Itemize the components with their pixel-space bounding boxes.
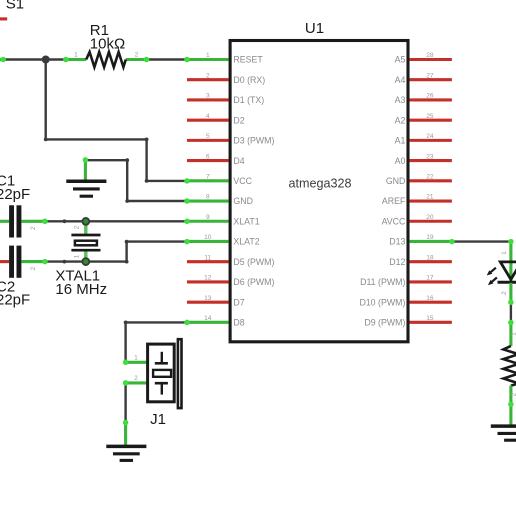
U1 pin 22 leg (GND) <box>409 179 452 182</box>
svg-text:A4: A4 <box>395 75 406 85</box>
svg-text:S1: S1 <box>6 0 24 13</box>
resistor R2 leg 2 <box>509 386 512 405</box>
svg-text:12: 12 <box>204 275 212 282</box>
C2 pin 2 number <box>30 266 37 270</box>
resonator J1 body <box>148 339 182 408</box>
svg-text:U1: U1 <box>305 20 324 37</box>
U1 pin 28 leg (A5) <box>409 58 452 61</box>
U1 pin 9 leg (XLAT1) <box>187 220 229 223</box>
U1 pin 21 name label AREF <box>382 196 406 206</box>
node: crystal bottom junction <box>82 258 89 265</box>
U1 pin 23 number <box>426 153 434 160</box>
U1 pin 12 leg (D6 (PWM)) <box>187 280 229 283</box>
U1 pin 10 leg (XLAT2) <box>187 240 229 243</box>
capacitor C2 right lead <box>21 260 45 263</box>
LED1 pin 1 number <box>501 251 508 255</box>
U1 pin 25 name label A2 <box>395 115 406 125</box>
svg-text:2: 2 <box>510 392 516 396</box>
J1 label <box>150 411 166 428</box>
LED1 pin 2 number <box>501 291 508 295</box>
U1 pin 5 number <box>206 133 210 140</box>
svg-text:8: 8 <box>206 194 210 201</box>
U1 pin 1 name label RESET <box>233 55 263 65</box>
U1 pin 9 name label XLAT1 <box>233 216 259 226</box>
U1 pin 11 name label D5 (PWM) <box>233 257 274 267</box>
svg-text:atmega328: atmega328 <box>288 176 351 190</box>
wire: J1 pin 2 to ground <box>124 383 126 423</box>
ground symbol near U1 <box>66 181 106 196</box>
capacitor C1 left lead <box>0 220 9 223</box>
wire: left edge to R1 (VCC/S1 net) <box>0 58 66 60</box>
node: U1 pin10 endpoint <box>184 239 190 245</box>
U1 pin 18 name label D12 <box>389 257 405 267</box>
U1 pin 27 number <box>426 72 434 79</box>
svg-text:6: 6 <box>206 153 210 160</box>
crystal XTAL1 pin 1 (bottom) <box>84 250 87 261</box>
C2 label <box>0 278 15 295</box>
svg-text:A1: A1 <box>395 136 406 146</box>
wire: LED to R2 <box>510 302 512 322</box>
svg-text:3: 3 <box>206 93 210 100</box>
node: R2 pin1 endpoint <box>508 320 514 326</box>
J1 pin 2 leg <box>126 381 147 384</box>
svg-text:2: 2 <box>30 226 37 230</box>
wire: VCC net (junction down to pin 7) <box>44 60 187 183</box>
ground bottom-right pin stub <box>509 404 512 426</box>
svg-text:D13: D13 <box>389 237 405 247</box>
node: R2 pin2 endpoint <box>508 402 514 408</box>
R2 pin 2 number <box>510 392 516 396</box>
U1 pin 15 number <box>426 315 434 322</box>
resistor R1 leg 1 <box>66 58 86 61</box>
U1 pin 17 number <box>426 275 434 282</box>
IC U1 atmega328 <box>230 41 408 342</box>
U1 pin 24 leg (A1) <box>409 139 452 142</box>
U1 pin 23 name label A0 <box>395 156 406 166</box>
U1 pin 13 number <box>204 295 212 302</box>
J1 pin 1 number <box>134 354 138 361</box>
svg-text:20: 20 <box>426 214 434 221</box>
U1 pin 28 number <box>426 52 434 59</box>
U1 pin 24 name label A1 <box>395 136 406 146</box>
svg-text:D2: D2 <box>233 115 244 125</box>
svg-text:D10 (PWM): D10 (PWM) <box>359 297 405 307</box>
U1 pin 21 leg (AREF) <box>409 199 452 202</box>
U1 pin 16 leg (D10 (PWM)) <box>409 301 452 304</box>
C2 value 22pF <box>0 292 30 309</box>
U1 pin 26 leg (A3) <box>409 98 452 101</box>
svg-text:D1 (TX): D1 (TX) <box>233 95 264 105</box>
U1 pin 16 number <box>426 295 434 302</box>
wire: XLAT2 net (C2 to pin 10 through crystal) <box>45 240 187 264</box>
U1 pin 2 name label D0 (RX) <box>233 75 265 85</box>
node: U1 pin1 endpoint <box>184 57 190 63</box>
node: C2 pin2 endpoint <box>42 259 48 265</box>
node: U1 pin8 endpoint <box>184 198 190 204</box>
node: C1 pin2 endpoint <box>42 219 48 225</box>
svg-text:2: 2 <box>74 225 81 229</box>
U1 pin 1 leg (RESET) <box>187 58 229 61</box>
svg-text:16: 16 <box>426 295 434 302</box>
LED1 pin 1 leg <box>509 242 512 281</box>
svg-text:2: 2 <box>134 375 138 382</box>
U1 pin 28 name label A5 <box>395 55 406 65</box>
U1 pin 7 name label VCC <box>233 176 252 186</box>
XTAL1 label <box>55 268 100 285</box>
ground (VCC-area ground for pin 8) pin stub <box>84 160 87 181</box>
svg-text:25: 25 <box>426 113 434 120</box>
svg-text:D4: D4 <box>233 156 244 166</box>
U1 pin 3 number <box>206 93 210 100</box>
U1 pin 4 name label D2 <box>233 115 244 125</box>
U1 pin 13 leg (D7) <box>187 301 229 304</box>
node: crystal top junction <box>82 218 89 225</box>
svg-text:14: 14 <box>204 315 212 322</box>
U1 label <box>305 20 324 37</box>
U1 pin 27 name label A4 <box>395 75 406 85</box>
svg-text:11: 11 <box>204 254 211 261</box>
LED1 emission arrow 2 <box>488 278 497 286</box>
S1 label <box>6 0 24 13</box>
U1 pin 7 leg (VCC) <box>187 179 229 182</box>
U1 pin 19 leg (D13) <box>409 240 452 243</box>
node: LED pin2 endpoint <box>508 300 514 306</box>
atmega328 value label <box>288 176 351 190</box>
capacitor C2 plates <box>9 246 21 278</box>
resistor R1 body <box>86 52 126 67</box>
svg-text:D8: D8 <box>233 318 244 328</box>
U1 pin 22 name label GND <box>386 176 406 186</box>
XTAL1 pin 2 number <box>74 225 81 229</box>
U1 pin 4 leg (D2) <box>187 119 229 122</box>
R1 pin 2 number <box>135 51 139 58</box>
svg-text:18: 18 <box>426 254 434 261</box>
U1 pin 10 number <box>204 234 212 241</box>
node: J1 pin2 endpoint <box>123 380 129 386</box>
svg-text:1: 1 <box>510 332 516 336</box>
svg-text:GND: GND <box>233 196 253 206</box>
U1 pin 5 leg (D3 (PWM)) <box>187 139 229 142</box>
U1 pin 7 number <box>206 174 210 181</box>
U1 pin 26 name label A3 <box>395 95 406 105</box>
node: J1 pin1 endpoint <box>123 360 129 366</box>
ground symbol bottom right <box>491 426 516 440</box>
svg-text:1: 1 <box>74 254 81 258</box>
svg-text:9: 9 <box>206 214 210 221</box>
U1 pin 1 number <box>206 52 210 59</box>
svg-text:1: 1 <box>206 52 210 59</box>
U1 pin 17 name label D11 (PWM) <box>360 277 405 287</box>
svg-text:19: 19 <box>426 234 434 241</box>
U1 pin 22 number <box>426 174 434 181</box>
svg-text:21: 21 <box>426 194 434 201</box>
U1 pin 15 leg (D9 (PWM)) <box>409 321 452 324</box>
U1 pin 2 leg (D0 (RX)) <box>187 78 229 81</box>
ground below J1 pin stub <box>124 423 127 447</box>
svg-text:A5: A5 <box>395 55 406 65</box>
U1 pin 6 name label D4 <box>233 156 244 166</box>
svg-text:A3: A3 <box>395 95 406 105</box>
U1 pin 23 leg (A0) <box>409 159 452 162</box>
C1 pin 2 number <box>30 226 37 230</box>
U1 pin 5 name label D3 (PWM) <box>233 136 274 146</box>
U1 pin 3 leg (D1 (TX)) <box>187 98 229 101</box>
switch S1 pin stub <box>0 17 7 20</box>
LED1 body <box>498 262 516 282</box>
svg-text:AVCC: AVCC <box>382 216 406 226</box>
svg-text:16 MHz: 16 MHz <box>55 281 107 298</box>
U1 pin 16 name label D10 (PWM) <box>359 297 405 307</box>
U1 pin 20 leg (AVCC) <box>409 220 452 223</box>
crystal XTAL1 pin 2 (top) <box>84 221 87 235</box>
svg-text:7: 7 <box>206 174 210 181</box>
U1 pin 14 number <box>204 315 212 322</box>
node: left edge stub endpoint <box>0 57 6 63</box>
U1 pin 9 number <box>206 214 210 221</box>
node: R1 pin2 endpoint <box>144 57 150 63</box>
resistor R2 body <box>503 346 516 386</box>
U1 pin 18 number <box>426 254 434 261</box>
svg-text:A0: A0 <box>395 156 406 166</box>
svg-text:XLAT2: XLAT2 <box>233 237 259 247</box>
U1 pin 24 number <box>426 133 434 140</box>
U1 pin 20 number <box>426 214 434 221</box>
svg-text:13: 13 <box>204 295 212 302</box>
svg-text:D7: D7 <box>233 297 244 307</box>
U1 pin 11 leg (D5 (PWM)) <box>187 260 229 263</box>
wire: left edge green stub <box>0 58 6 61</box>
node: junction at S1/R1/VCC <box>42 56 50 64</box>
U1 pin 19 name label D13 <box>389 237 405 247</box>
U1 pin 27 leg (A4) <box>409 78 452 81</box>
U1 pin 2 number <box>206 72 210 79</box>
U1 pin 13 name label D7 <box>233 297 244 307</box>
wire: R1 pin2 to U1 RESET <box>147 58 188 60</box>
R2 pin 1 number <box>510 332 516 336</box>
wire: GND net (ground symbol to pin 8) <box>85 158 187 203</box>
U1 pin 18 leg (D12) <box>409 260 452 263</box>
svg-text:AREF: AREF <box>382 196 406 206</box>
LED1 pin 2 leg <box>509 283 512 303</box>
svg-text:22pF: 22pF <box>0 292 30 309</box>
svg-text:D5 (PWM): D5 (PWM) <box>233 257 274 267</box>
svg-text:26: 26 <box>426 93 434 100</box>
U1 pin 15 name label D9 (PWM) <box>364 318 405 328</box>
svg-text:1: 1 <box>134 354 138 361</box>
node: U1 pin7 endpoint <box>184 178 190 184</box>
XTAL1 pin 1 number <box>74 254 81 258</box>
wire: D8 net (pin 14 to J1 pin 1) <box>124 321 187 363</box>
U1 pin 26 number <box>426 93 434 100</box>
wire: XLAT1 net (C1 to pin 9 through crystal) <box>45 219 187 223</box>
U1 pin 8 name label GND <box>233 196 253 206</box>
U1 pin 19 number <box>426 234 434 241</box>
XTAL1 value 16 MHz <box>55 281 107 298</box>
U1 pin 4 number <box>206 113 210 120</box>
LED1 emission arrow 1 <box>487 268 496 276</box>
ground symbol below J1 <box>106 446 146 460</box>
J1 pin 1 leg <box>126 361 147 364</box>
svg-text:15: 15 <box>426 315 434 322</box>
U1 pin 14 name label D8 <box>233 318 244 328</box>
svg-text:2: 2 <box>30 266 37 270</box>
capacitor C2 left lead (unrouted) <box>0 260 9 263</box>
svg-text:5: 5 <box>206 133 210 140</box>
U1 pin 14 leg (D8) <box>187 321 229 324</box>
svg-text:GND: GND <box>386 176 406 186</box>
svg-text:1: 1 <box>501 251 508 255</box>
U1 pin 12 number <box>204 275 212 282</box>
svg-text:4: 4 <box>206 113 210 120</box>
svg-text:22: 22 <box>426 174 434 181</box>
C1 label <box>0 173 15 190</box>
svg-text:1: 1 <box>74 51 78 58</box>
U1 pin 8 number <box>206 194 210 201</box>
svg-text:D12: D12 <box>389 257 405 267</box>
J1 pin 2 number <box>134 375 138 382</box>
svg-text:RESET: RESET <box>233 55 263 65</box>
U1 pin 3 name label D1 (TX) <box>233 95 264 105</box>
U1 pin 10 name label XLAT2 <box>233 237 259 247</box>
node: J1 ground stub endpoint <box>123 420 129 426</box>
svg-text:10kΩ: 10kΩ <box>90 36 125 53</box>
node: U1 pin19 endpoint <box>449 239 455 245</box>
U1 pin 21 number <box>426 194 434 201</box>
node: U1 pin9 endpoint <box>184 219 190 225</box>
U1 pin 25 number <box>426 113 434 120</box>
svg-text:24: 24 <box>426 133 434 140</box>
capacitor C1 plates <box>9 205 21 237</box>
svg-text:23: 23 <box>426 153 434 160</box>
svg-text:J1: J1 <box>150 411 166 428</box>
svg-text:D9 (PWM): D9 (PWM) <box>364 318 405 328</box>
U1 pin 17 leg (D11 (PWM)) <box>409 280 452 283</box>
C1 value 22pF <box>0 186 30 203</box>
U1 pin 6 leg (D4) <box>187 159 229 162</box>
R1 label <box>90 22 109 39</box>
svg-text:2: 2 <box>501 291 508 295</box>
resistor R1 leg 2 <box>126 58 147 61</box>
svg-text:D0 (RX): D0 (RX) <box>233 75 265 85</box>
R1 pin 1 number <box>74 51 78 58</box>
svg-text:10: 10 <box>204 234 212 241</box>
U1 pin 6 number <box>206 153 210 160</box>
svg-text:22pF: 22pF <box>0 186 30 203</box>
svg-text:27: 27 <box>426 72 434 79</box>
svg-text:28: 28 <box>426 52 434 59</box>
svg-text:D3 (PWM): D3 (PWM) <box>233 136 274 146</box>
wire: D13 net (pin 19 to LED) <box>452 240 511 242</box>
svg-text:2: 2 <box>206 72 210 79</box>
node: LED top corner endpoint <box>508 239 514 245</box>
node: ground stub endpoint near U1 <box>83 157 89 163</box>
svg-text:D6 (PWM): D6 (PWM) <box>233 277 274 287</box>
svg-text:17: 17 <box>426 275 434 282</box>
svg-text:XLAT1: XLAT1 <box>233 216 259 226</box>
resistor R2 leg 1 <box>509 323 512 347</box>
R1 value 10k ohm <box>90 36 125 53</box>
U1 pin 8 leg (GND) <box>187 199 229 202</box>
node: U1 pin14 endpoint <box>184 320 190 326</box>
U1 pin 11 number <box>204 254 211 261</box>
crystal XTAL1 body <box>71 235 100 250</box>
svg-text:2: 2 <box>135 51 139 58</box>
U1 pin 12 name label D6 (PWM) <box>233 277 274 287</box>
svg-text:D11 (PWM): D11 (PWM) <box>360 277 405 287</box>
svg-text:A2: A2 <box>395 115 406 125</box>
node: R1 pin1 endpoint <box>63 57 69 63</box>
svg-text:VCC: VCC <box>233 176 252 186</box>
capacitor C1 right lead <box>21 220 45 223</box>
U1 pin 25 leg (A2) <box>409 119 452 122</box>
U1 pin 20 name label AVCC <box>382 216 406 226</box>
